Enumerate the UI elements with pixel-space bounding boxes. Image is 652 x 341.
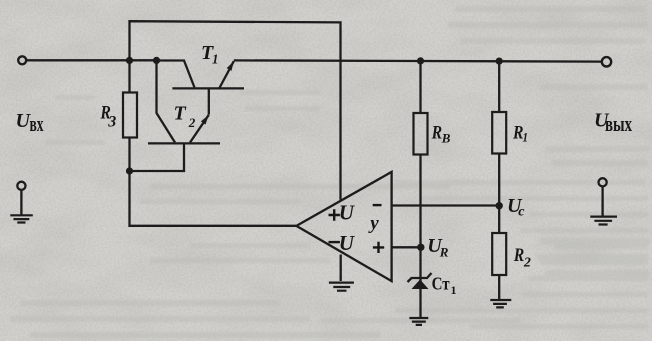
svg-text:T: T — [174, 103, 187, 125]
ground zener — [409, 318, 428, 325]
resistor R2 — [498, 206, 500, 234]
zener CT1 cathode bar — [408, 273, 432, 282]
ground -U pin — [329, 283, 354, 291]
zener CT1 lead — [419, 247, 421, 317]
transistor T1 collector — [157, 61, 195, 88]
svg-text:R: R — [513, 245, 524, 266]
svg-text:вых: вых — [605, 111, 632, 136]
node input-R3 — [126, 57, 133, 64]
transistor T2 emitter — [190, 115, 209, 143]
svg-text:U: U — [339, 231, 356, 255]
svg-text:Ст: Ст — [432, 274, 450, 294]
svg-text:2: 2 — [188, 115, 196, 130]
wire noninverting input to UR — [392, 246, 421, 248]
output terminal — [602, 57, 611, 66]
arrowhead T1 emitter — [227, 61, 234, 71]
svg-text:1: 1 — [212, 53, 219, 68]
ground left terminal — [17, 182, 25, 190]
svg-text:R: R — [431, 123, 442, 144]
wire inverting input to Uc — [392, 204, 500, 206]
node input-T2 — [153, 57, 160, 64]
minus sign inverting input — [373, 204, 382, 206]
arrowhead T2 emitter — [201, 115, 209, 125]
resistor R1 — [498, 61, 500, 112]
transistor T2 collector — [157, 61, 176, 143]
op-amp U1 triangle — [296, 172, 391, 281]
wire opamp output to base node — [130, 171, 297, 226]
wire base node to T2 base — [130, 145, 185, 172]
minus sign of -U supply label — [329, 241, 340, 243]
svg-text:1: 1 — [451, 283, 457, 297]
svg-text:c: c — [518, 205, 525, 220]
plus sign noninverting input — [373, 242, 384, 253]
node UR — [417, 244, 424, 251]
ground right terminal — [599, 178, 607, 186]
svg-text:вх: вх — [30, 111, 44, 136]
svg-text:у: у — [368, 213, 379, 234]
transistor T1 emitter — [219, 61, 233, 88]
wire top rail — [130, 21, 341, 200]
transistor T2 base bar — [148, 142, 220, 144]
node R3-base — [126, 167, 133, 174]
svg-text:2: 2 — [523, 255, 531, 270]
wire -U pin — [340, 255, 342, 282]
svg-text:B: B — [441, 131, 451, 146]
resistor RB — [419, 61, 421, 113]
zener CT1 triangle — [412, 280, 429, 290]
svg-text:3: 3 — [107, 113, 116, 130]
wire input rail — [27, 59, 157, 61]
svg-text:R: R — [439, 245, 449, 260]
svg-text:U: U — [339, 201, 356, 225]
transistor T1 base bar — [172, 87, 244, 89]
resistor R3 — [128, 61, 130, 93]
wire output rail — [234, 60, 602, 61]
input terminal — [18, 56, 26, 64]
svg-text:1: 1 — [523, 129, 529, 144]
ground R2 — [490, 300, 511, 307]
node Uc — [496, 202, 503, 209]
plus sign of +U supply label — [329, 209, 340, 220]
